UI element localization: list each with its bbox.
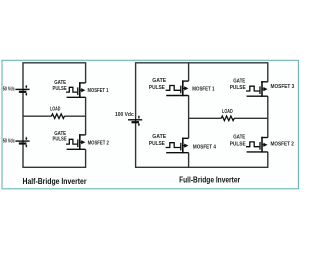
wire: half-bridge leg middle segment (source M1 to drain M2, load tap) bbox=[85, 97, 87, 135]
FB MOSFET 1: gate pulse waveform wire bbox=[166, 86, 181, 91]
svg-text:PULSE: PULSE bbox=[53, 86, 68, 92]
battery V1 50 Vdc (upper source, half-bridge): positive (long) plate bbox=[15, 88, 29, 90]
MOSFET 2: gate bar bbox=[77, 139, 79, 147]
svg-text:Full-Bridge Inverter: Full-Bridge Inverter bbox=[179, 176, 240, 185]
svg-text:MOSFET 1: MOSFET 1 bbox=[192, 86, 214, 92]
wire: half-bridge bottom rail bbox=[22, 166, 86, 168]
wire: half-bridge load branch left part bbox=[23, 115, 52, 117]
FB MOSFET 4: gate pulse waveform wire bbox=[166, 143, 181, 148]
MOSFET 2: channel bar bbox=[79, 134, 81, 150]
svg-text:MOSFET 2: MOSFET 2 bbox=[271, 142, 294, 148]
wire: half-bridge leg upper segment (drain of MOSFET 1) bbox=[85, 63, 87, 83]
svg-text:Half-Bridge Inverter: Half-Bridge Inverter bbox=[23, 177, 87, 186]
svg-text:MOSFET 3: MOSFET 3 bbox=[271, 84, 295, 90]
svg-text:MOSFET 4: MOSFET 4 bbox=[193, 144, 216, 150]
FB MOSFET 3: source lead bbox=[247, 95, 268, 97]
svg-text:PULSE: PULSE bbox=[230, 85, 246, 91]
wire: full-bridge load branch right part bbox=[234, 117, 268, 119]
MOSFET 1: drain lead bbox=[79, 82, 86, 84]
MOSFET 2: gate pulse waveform wire bbox=[66, 139, 78, 144]
svg-text:LOAD: LOAD bbox=[50, 107, 60, 113]
battery V2 50 Vdc (lower source, half-bridge): negative (short) plate bbox=[19, 142, 27, 144]
wire: full-bridge left rail (battery branch) bbox=[135, 63, 137, 168]
wire: half-bridge left rail (battery branch) bbox=[22, 63, 24, 168]
svg-text:GATE: GATE bbox=[233, 135, 245, 141]
FB MOSFET 4: body arrow bbox=[183, 145, 186, 147]
svg-text:GATE: GATE bbox=[152, 134, 166, 140]
FB MOSFET 1: drain lead bbox=[182, 80, 189, 82]
MOSFET 1: gate pulse waveform wire bbox=[66, 87, 78, 92]
wire: full-bridge load branch left part bbox=[189, 117, 222, 119]
wire: full-bridge left leg middle segment (load tap A) bbox=[188, 96, 190, 139]
full-bridge inverter circuit bbox=[115, 63, 294, 185]
resistor LOAD (half-bridge) bbox=[51, 114, 64, 119]
MOSFET 2: source lead bbox=[67, 148, 86, 150]
FB MOSFET 2: gate bar bbox=[259, 142, 261, 150]
MOSFET 1: channel bar bbox=[79, 82, 81, 98]
svg-text:50 Vdc: 50 Vdc bbox=[3, 87, 15, 93]
FB MOSFET 2: drain lead bbox=[261, 137, 268, 139]
wire: full-bridge bottom rail bbox=[135, 166, 268, 168]
FB MOSFET 2: channel bar bbox=[261, 137, 263, 153]
svg-text:MOSFET 1: MOSFET 1 bbox=[88, 88, 109, 94]
FB MOSFET 1: channel bar bbox=[182, 80, 184, 96]
MOSFET 1: source lead bbox=[67, 96, 86, 98]
svg-text:PULSE: PULSE bbox=[53, 137, 68, 143]
FB MOSFET 3: gate pulse waveform wire bbox=[246, 86, 260, 91]
FB MOSFET 2: body arrow bbox=[262, 144, 265, 146]
FB MOSFET 2: source lead bbox=[247, 151, 268, 153]
wire: full-bridge left leg upper segment (drain MOSFET 1) bbox=[188, 63, 190, 81]
MOSFET 2: body arrow bbox=[80, 141, 83, 143]
svg-text:100 Vdc: 100 Vdc bbox=[115, 112, 134, 118]
battery V2 50 Vdc (lower source, half-bridge): polarity arrow down bbox=[25, 145, 27, 146]
FB MOSFET 4: gate bar bbox=[180, 143, 182, 151]
battery V1 50 Vdc (upper source, half-bridge): polarity arrow down bbox=[25, 93, 27, 94]
FB MOSFET 4: source lead bbox=[166, 152, 188, 154]
svg-text:50 Vdc: 50 Vdc bbox=[3, 139, 15, 145]
half-bridge inverter circuit bbox=[3, 63, 109, 186]
FB MOSFET 3: body arrow bbox=[262, 88, 265, 90]
FB MOSFET 1: source lead bbox=[166, 95, 188, 97]
resistor LOAD (full-bridge) bbox=[221, 116, 234, 121]
svg-text:PULSE: PULSE bbox=[230, 141, 246, 147]
svg-text:GATE: GATE bbox=[233, 78, 245, 84]
MOSFET 1: gate bar bbox=[77, 87, 79, 95]
MOSFET 2: drain lead bbox=[79, 134, 86, 136]
wire: full-bridge right leg middle segment (load tap B) bbox=[267, 96, 269, 137]
battery V2 50 Vdc (lower source, half-bridge): positive (long) plate bbox=[15, 140, 29, 142]
FB MOSFET 1: body arrow bbox=[183, 87, 186, 89]
FB MOSFET 3: drain lead bbox=[261, 81, 268, 83]
battery V1 50 Vdc (upper source, half-bridge): polarity arrow up bbox=[25, 87, 27, 89]
svg-text:LOAD: LOAD bbox=[222, 109, 233, 115]
svg-text:GATE: GATE bbox=[152, 78, 166, 84]
FB MOSFET 4: channel bar bbox=[182, 138, 184, 154]
wire: half-bridge top rail bbox=[22, 62, 86, 64]
battery V2 50 Vdc (lower source, half-bridge): polarity arrow up bbox=[25, 138, 27, 140]
FB MOSFET 1: gate bar bbox=[180, 86, 182, 94]
FB MOSFET 3: channel bar bbox=[261, 81, 263, 97]
wire: half-bridge load branch right part bbox=[64, 115, 85, 117]
FB MOSFET 2: gate pulse waveform wire bbox=[246, 142, 260, 147]
svg-text:PULSE: PULSE bbox=[149, 141, 165, 147]
svg-text:MOSFET 2: MOSFET 2 bbox=[88, 140, 109, 146]
battery V1 50 Vdc (upper source, half-bridge): negative (short) plate bbox=[19, 91, 27, 93]
battery V3 100 Vdc (full-bridge source): polarity arrow up bbox=[138, 117, 140, 119]
MOSFET 1: body arrow bbox=[80, 89, 83, 91]
FB MOSFET 4: drain lead bbox=[182, 137, 189, 139]
wire: full-bridge right leg lower segment (source MOSFET 2) bbox=[267, 152, 269, 167]
wire: full-bridge left leg lower segment (source MOSFET 4) bbox=[188, 153, 190, 168]
battery V3 100 Vdc (full-bridge source): negative (short) plate bbox=[132, 121, 140, 123]
FB MOSFET 3: gate bar bbox=[259, 86, 261, 94]
wire: full-bridge right leg upper segment (drain MOSFET 3) bbox=[267, 63, 269, 82]
battery V3 100 Vdc (full-bridge source): positive (long) plate bbox=[128, 119, 142, 121]
svg-text:PULSE: PULSE bbox=[149, 85, 165, 91]
wire: half-bridge leg lower segment (source of MOSFET 2) bbox=[85, 149, 87, 167]
battery V3 100 Vdc (full-bridge source): polarity arrow down bbox=[138, 123, 140, 124]
wire: full-bridge top rail bbox=[135, 62, 268, 64]
